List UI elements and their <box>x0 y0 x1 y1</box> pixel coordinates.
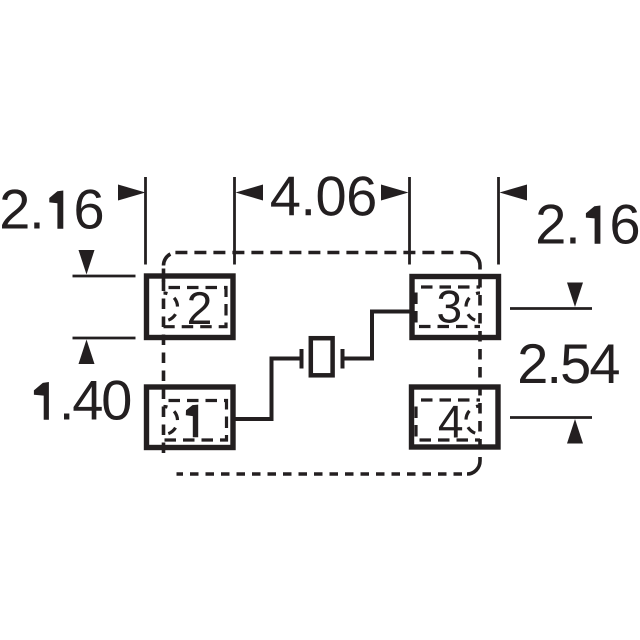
pad 4 <box>412 387 499 447</box>
extension line at pad2 left edge <box>144 177 147 265</box>
pad 3 dashed hole arc <box>466 293 480 321</box>
pad 3 label <box>438 290 460 323</box>
dimension text 4.06 top center <box>271 176 375 216</box>
pad 2 label <box>189 292 210 324</box>
wire pad1 to crystal left plate <box>236 359 301 420</box>
dimension text 2.16 top left <box>2 189 102 229</box>
dimension text 2.16 top right <box>538 204 638 244</box>
component body outline: right edge (dashed) <box>478 266 482 462</box>
component body outline: top-right corner arc <box>467 253 480 266</box>
component body outline: top edge (dashed) <box>175 251 467 255</box>
extension line at pad2 right edge <box>233 177 236 265</box>
1.40 down arrow <box>79 250 95 275</box>
2.54 down arrow <box>567 283 583 308</box>
pad 1 <box>147 387 234 448</box>
component body outline: bottom edge (short dashes) <box>177 472 463 476</box>
arrow right toward pad3 left edge <box>381 185 409 201</box>
dimension text 2.54 <box>520 344 619 384</box>
2.54 dimension bottom tick <box>510 416 592 419</box>
component body outline: top-left corner arc <box>163 254 170 266</box>
digit 1 glyph of dimension text 1.40 <box>34 382 49 420</box>
pad 1 label digit 1 <box>186 405 198 438</box>
arrow left toward pad3 right edge <box>500 185 528 201</box>
pad 4 inner dashed pad <box>416 398 480 401</box>
wire crystal right plate to pad3 <box>345 312 410 359</box>
crystal X1 body <box>311 338 333 375</box>
pad 3 <box>412 277 499 338</box>
arrow left toward pad2 right edge <box>236 185 264 201</box>
digit 1 glyph of dimension text 2.16 top right <box>586 206 601 244</box>
1.40 dimension bottom tick <box>73 337 136 340</box>
extension line at pad3 right edge <box>497 177 500 265</box>
crystal right plate <box>341 349 345 369</box>
digit 1 glyph of dimension text 2.16 top left <box>49 191 63 229</box>
component body outline: bottom-right corner arc <box>467 461 480 474</box>
pad 4 dashed hole arc <box>466 406 480 434</box>
pad 3 inner dashed pad <box>416 285 480 288</box>
1.40 dimension top tick <box>73 275 136 278</box>
1.40 up arrow <box>79 340 95 365</box>
crystal left plate <box>300 349 304 369</box>
pad 1 dashed hole arc <box>164 407 178 435</box>
arrow right toward pad2 left edge <box>118 185 146 201</box>
pad 4 label <box>439 406 462 438</box>
extension line at pad3 left edge <box>408 177 411 265</box>
2.54 up arrow <box>567 419 583 444</box>
dimension text 1.40 <box>64 380 130 420</box>
component body outline: left edge (dashed, open bottom corner) <box>162 277 166 457</box>
pad 1 inner dashed pad <box>164 401 227 441</box>
pad 2 dashed hole arc <box>164 293 178 321</box>
2.54 dimension top tick <box>510 307 592 310</box>
component body outline: left edge dash crossing pad 2 top edge <box>162 269 166 282</box>
pad 2 <box>147 276 234 338</box>
pad 2 inner dashed pad <box>164 288 227 327</box>
